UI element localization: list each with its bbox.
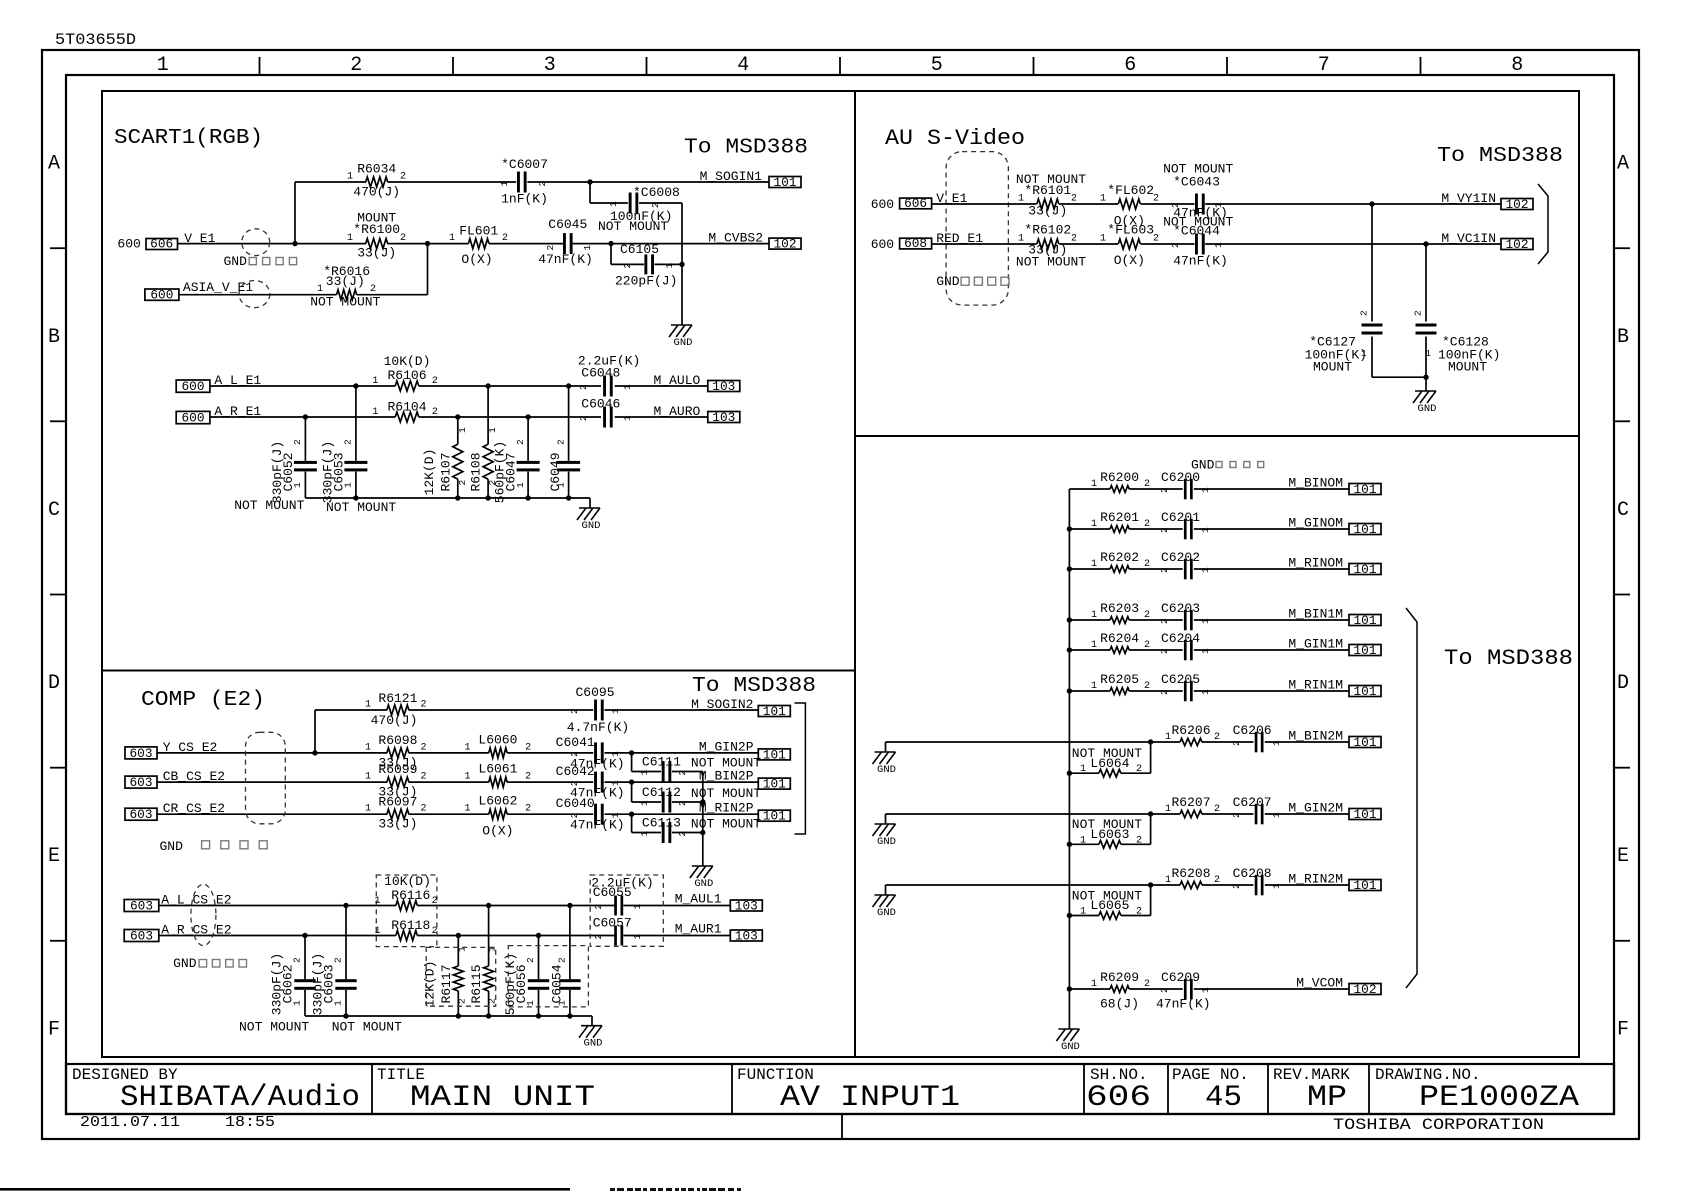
svg-text:101: 101: [774, 176, 797, 190]
svg-text:M_SOGIN2: M_SOGIN2: [691, 697, 753, 712]
svg-text:1: 1: [639, 831, 650, 837]
svg-text:101: 101: [1354, 483, 1377, 497]
svg-text:C6111: C6111: [642, 755, 681, 770]
svg-text:GND: GND: [160, 839, 184, 854]
svg-text:GND: GND: [936, 274, 960, 289]
svg-text:2: 2: [1214, 732, 1220, 743]
svg-text:SCART1(RGB): SCART1(RGB): [114, 127, 263, 150]
svg-text:1: 1: [632, 904, 643, 910]
svg-text:2: 2: [1071, 233, 1077, 244]
svg-text:1: 1: [639, 800, 650, 806]
svg-text:33(J): 33(J): [378, 817, 417, 832]
svg-text:47nF(K): 47nF(K): [538, 252, 593, 267]
svg-text:608: 608: [904, 237, 927, 251]
svg-text:C6095: C6095: [575, 685, 614, 700]
svg-text:4.7nF(K): 4.7nF(K): [567, 720, 629, 735]
svg-text:B: B: [1617, 326, 1629, 349]
svg-text:603: 603: [130, 747, 153, 761]
svg-text:600: 600: [182, 411, 205, 425]
svg-text:To MSD388: To MSD388: [1437, 145, 1563, 168]
svg-text:GND: GND: [877, 907, 896, 919]
svg-text:1: 1: [1080, 835, 1086, 846]
svg-text:8: 8: [1511, 54, 1523, 77]
svg-text:2: 2: [1144, 681, 1150, 692]
svg-text:2: 2: [578, 415, 589, 421]
svg-text:2: 2: [1359, 310, 1370, 316]
svg-text:1: 1: [457, 427, 468, 433]
svg-text:R6204: R6204: [1100, 631, 1139, 646]
svg-text:1: 1: [664, 263, 675, 269]
svg-text:1: 1: [1091, 479, 1097, 490]
svg-text:*FL602: *FL602: [1107, 183, 1154, 198]
svg-text:101: 101: [1354, 523, 1377, 537]
svg-text:O(X): O(X): [482, 824, 513, 839]
svg-text:2: 2: [1231, 812, 1242, 818]
svg-text:220pF(J): 220pF(J): [615, 274, 677, 289]
svg-text:1: 1: [1080, 907, 1086, 918]
svg-text:M_AULO: M_AULO: [654, 373, 701, 388]
svg-text:C6042: C6042: [556, 764, 595, 779]
svg-text:C: C: [1617, 499, 1629, 522]
svg-text:1: 1: [622, 415, 633, 421]
svg-text:2: 2: [432, 407, 438, 418]
svg-text:R6203: R6203: [1100, 601, 1139, 616]
svg-text:470(J): 470(J): [353, 185, 400, 200]
svg-text:606: 606: [150, 238, 173, 252]
svg-text:103: 103: [735, 900, 758, 914]
svg-text:M_GIN2M: M_GIN2M: [1288, 801, 1343, 816]
svg-text:2: 2: [370, 284, 376, 295]
svg-text:M_RIN2M: M_RIN2M: [1288, 872, 1343, 887]
svg-text:101: 101: [1354, 644, 1377, 658]
svg-text:M_VC1IN: M_VC1IN: [1441, 231, 1496, 246]
svg-text:L6065: L6065: [1090, 898, 1129, 913]
svg-text:NOT MOUNT: NOT MOUNT: [234, 498, 304, 513]
svg-text:GND: GND: [584, 1038, 603, 1050]
svg-text:2: 2: [457, 480, 468, 486]
svg-text:R6115: R6115: [469, 964, 484, 1003]
svg-text:C6046: C6046: [581, 397, 620, 412]
svg-text:1: 1: [347, 172, 353, 183]
svg-text:47nF(K): 47nF(K): [1156, 997, 1211, 1012]
svg-text:NOT MOUNT: NOT MOUNT: [332, 1020, 402, 1035]
svg-text:2: 2: [1170, 242, 1181, 248]
svg-text:C6052: C6052: [281, 452, 296, 491]
svg-text:C6204: C6204: [1161, 631, 1200, 646]
svg-text:603: 603: [130, 899, 153, 913]
svg-text:2: 2: [1144, 559, 1150, 570]
svg-text:2: 2: [1159, 648, 1170, 654]
svg-text:L6064: L6064: [1090, 756, 1129, 771]
svg-text:1: 1: [499, 181, 510, 187]
svg-text:D: D: [48, 672, 60, 695]
svg-text:2: 2: [593, 904, 604, 910]
svg-text:2: 2: [650, 202, 661, 208]
svg-text:GND: GND: [877, 836, 896, 848]
svg-text:33(J): 33(J): [326, 274, 365, 289]
svg-text:C6206: C6206: [1233, 723, 1272, 738]
svg-text:L6063: L6063: [1090, 827, 1129, 842]
svg-text:2: 2: [557, 957, 568, 963]
svg-text:4: 4: [737, 54, 749, 77]
svg-text:C6056: C6056: [514, 964, 529, 1003]
svg-text:GND: GND: [674, 337, 693, 349]
svg-text:M_CVBS2: M_CVBS2: [708, 230, 763, 245]
svg-text:R6200: R6200: [1100, 470, 1139, 485]
svg-text:A: A: [1617, 153, 1629, 176]
svg-text:101: 101: [763, 705, 786, 719]
svg-text:M_GIN1M: M_GIN1M: [1288, 637, 1343, 652]
svg-text:2: 2: [1144, 610, 1150, 621]
svg-text:1: 1: [1425, 348, 1431, 359]
svg-text:2: 2: [1214, 804, 1220, 815]
svg-text:103: 103: [735, 930, 758, 944]
svg-text:102: 102: [1354, 983, 1377, 997]
svg-text:To MSD388: To MSD388: [684, 137, 808, 160]
svg-text:M_AURO: M_AURO: [654, 404, 701, 419]
svg-text:C: C: [48, 499, 60, 522]
svg-text:101: 101: [1354, 685, 1377, 699]
svg-text:To MSD388: To MSD388: [1444, 646, 1573, 671]
svg-text:NOT MOUNT: NOT MOUNT: [326, 500, 396, 515]
svg-text:2: 2: [421, 742, 427, 753]
svg-text:2: 2: [525, 772, 531, 783]
svg-text:2: 2: [502, 233, 508, 244]
svg-text:NOT MOUNT: NOT MOUNT: [310, 295, 380, 310]
svg-text:47nF(K): 47nF(K): [570, 818, 625, 833]
svg-text:1: 1: [464, 804, 470, 815]
svg-text:101: 101: [1354, 614, 1377, 628]
svg-text:2: 2: [622, 263, 633, 269]
svg-text:1: 1: [622, 384, 633, 390]
svg-text:1: 1: [639, 770, 650, 776]
svg-text:2: 2: [1413, 310, 1424, 316]
svg-text:AV INPUT1: AV INPUT1: [780, 1081, 960, 1115]
svg-text:12K(D): 12K(D): [422, 449, 437, 496]
svg-text:1: 1: [1091, 979, 1097, 990]
svg-text:12K(D): 12K(D): [422, 961, 437, 1008]
svg-text:2: 2: [400, 172, 406, 183]
svg-text:C6047: C6047: [504, 452, 519, 491]
svg-text:1: 1: [1200, 527, 1211, 533]
svg-text:2: 2: [1071, 193, 1077, 204]
svg-text:NOT MOUNT: NOT MOUNT: [239, 1020, 309, 1035]
svg-text:M_BINOM: M_BINOM: [1288, 476, 1343, 491]
svg-text:1: 1: [1018, 233, 1024, 244]
svg-text:103: 103: [712, 411, 735, 425]
svg-text:1: 1: [157, 54, 169, 77]
svg-text:AU S-Video: AU S-Video: [885, 126, 1025, 151]
svg-text:C6062: C6062: [281, 964, 296, 1003]
svg-text:1: 1: [487, 427, 498, 433]
svg-text:2: 2: [569, 780, 580, 786]
svg-text:C6041: C6041: [556, 735, 595, 750]
svg-text:2011.07.11: 2011.07.11: [80, 1114, 180, 1131]
svg-text:18:55: 18:55: [225, 1114, 275, 1131]
svg-text:1: 1: [1100, 233, 1106, 244]
svg-text:1: 1: [608, 201, 619, 207]
svg-text:C6201: C6201: [1161, 510, 1200, 525]
svg-text:2: 2: [1159, 487, 1170, 493]
svg-text:2: 2: [1159, 689, 1170, 695]
svg-text:C6112: C6112: [642, 785, 681, 800]
svg-text:R6121: R6121: [378, 691, 417, 706]
svg-text:102: 102: [1506, 238, 1529, 252]
svg-text:101: 101: [1354, 879, 1377, 893]
svg-text:1: 1: [449, 233, 455, 244]
svg-text:*C6044: *C6044: [1173, 223, 1220, 238]
svg-text:1: 1: [1200, 689, 1211, 695]
svg-text:NOT MOUNT: NOT MOUNT: [691, 817, 761, 832]
svg-text:2: 2: [1231, 740, 1242, 746]
svg-text:NOT MOUNT: NOT MOUNT: [598, 219, 668, 234]
svg-text:1: 1: [1165, 732, 1171, 743]
svg-text:101: 101: [763, 748, 786, 762]
svg-text:600: 600: [871, 197, 894, 212]
svg-text:103: 103: [712, 380, 735, 394]
svg-text:45: 45: [1205, 1081, 1242, 1115]
svg-text:GND: GND: [1061, 1041, 1080, 1053]
svg-text:1: 1: [1271, 883, 1282, 889]
svg-text:1: 1: [632, 934, 643, 940]
svg-text:C6205: C6205: [1161, 672, 1200, 687]
svg-text:R6209: R6209: [1100, 970, 1139, 985]
svg-text:600: 600: [150, 288, 173, 302]
svg-text:C6202: C6202: [1161, 550, 1200, 565]
svg-text:*R6102: *R6102: [1024, 223, 1071, 238]
svg-text:2: 2: [456, 998, 467, 1004]
svg-text:M_AUR1: M_AUR1: [675, 922, 722, 937]
svg-text:2: 2: [1144, 979, 1150, 990]
svg-text:ASIA_V_E1: ASIA_V_E1: [183, 280, 253, 295]
svg-text:600: 600: [117, 237, 140, 252]
svg-text:1: 1: [347, 233, 353, 244]
svg-text:R6117: R6117: [439, 964, 454, 1003]
svg-text:2: 2: [569, 751, 580, 757]
svg-text:D: D: [1617, 672, 1629, 695]
svg-text:R6208: R6208: [1171, 866, 1210, 881]
svg-text:M_RIN1M: M_RIN1M: [1288, 678, 1343, 693]
svg-text:2: 2: [432, 376, 438, 387]
svg-text:1: 1: [317, 284, 323, 295]
svg-text:10K(D): 10K(D): [384, 354, 431, 369]
svg-text:PE1000ZA: PE1000ZA: [1419, 1081, 1579, 1115]
svg-text:R6207: R6207: [1171, 795, 1210, 810]
svg-text:3: 3: [544, 54, 556, 77]
svg-text:GND: GND: [1418, 403, 1437, 415]
svg-text:2: 2: [292, 957, 303, 963]
svg-text:A: A: [48, 153, 60, 176]
svg-text:2: 2: [677, 770, 688, 776]
svg-text:M_VY1IN: M_VY1IN: [1441, 191, 1496, 206]
svg-text:M_RIN2P: M_RIN2P: [699, 801, 754, 816]
svg-text:C6209: C6209: [1161, 970, 1200, 985]
svg-text:NOT MOUNT: NOT MOUNT: [691, 786, 761, 801]
svg-text:101: 101: [1354, 808, 1377, 822]
svg-text:M_RINOM: M_RINOM: [1288, 556, 1343, 571]
svg-text:1nF(K): 1nF(K): [501, 192, 548, 207]
svg-text:C6040: C6040: [556, 796, 595, 811]
svg-text:2: 2: [1153, 193, 1159, 204]
svg-text:101: 101: [763, 778, 786, 792]
svg-text:R6107: R6107: [438, 452, 453, 491]
svg-text:603: 603: [130, 929, 153, 943]
svg-text:2: 2: [545, 245, 556, 251]
svg-text:R6104: R6104: [387, 399, 426, 414]
svg-text:2: 2: [677, 800, 688, 806]
svg-text:33(J): 33(J): [357, 246, 396, 261]
svg-text:C6208: C6208: [1233, 866, 1272, 881]
svg-text:1: 1: [1100, 193, 1106, 204]
svg-text:1: 1: [1091, 610, 1097, 621]
svg-text:1: 1: [374, 926, 380, 937]
svg-text:2: 2: [1214, 875, 1220, 886]
svg-text:603: 603: [130, 808, 153, 822]
svg-text:C6203: C6203: [1161, 601, 1200, 616]
svg-text:2: 2: [432, 896, 438, 907]
svg-text:101: 101: [763, 810, 786, 824]
svg-text:1: 1: [1091, 519, 1097, 530]
svg-text:C6200: C6200: [1161, 470, 1200, 485]
svg-text:R6116: R6116: [391, 888, 430, 903]
svg-text:M_VCOM: M_VCOM: [1296, 976, 1343, 991]
svg-text:1: 1: [464, 742, 470, 753]
svg-text:F: F: [48, 1018, 60, 1041]
svg-text:2: 2: [1153, 233, 1159, 244]
svg-text:2: 2: [421, 804, 427, 815]
svg-text:1: 1: [1200, 618, 1211, 624]
svg-text:R6034: R6034: [357, 161, 396, 176]
svg-text:R6118: R6118: [391, 918, 430, 933]
svg-text:2: 2: [525, 957, 536, 963]
svg-text:F: F: [1617, 1018, 1629, 1041]
svg-text:MAIN UNIT: MAIN UNIT: [410, 1081, 595, 1115]
svg-text:GND: GND: [694, 878, 713, 890]
svg-text:1: 1: [610, 780, 621, 786]
svg-text:C6207: C6207: [1233, 795, 1272, 810]
svg-text:1: 1: [610, 812, 621, 818]
svg-text:1: 1: [1271, 812, 1282, 818]
svg-text:C6055: C6055: [593, 885, 632, 900]
svg-text:1: 1: [1213, 202, 1224, 208]
svg-text:*C6008: *C6008: [633, 185, 680, 200]
svg-text:470(J): 470(J): [371, 713, 418, 728]
svg-text:E: E: [48, 845, 60, 868]
svg-text:68(J): 68(J): [1100, 997, 1139, 1012]
svg-text:1: 1: [1213, 242, 1224, 248]
svg-text:2: 2: [525, 742, 531, 753]
svg-text:1: 1: [365, 700, 371, 711]
svg-text:R6201: R6201: [1100, 510, 1139, 525]
svg-text:1: 1: [1091, 681, 1097, 692]
svg-text:*R6100: *R6100: [353, 222, 400, 237]
svg-text:C6105: C6105: [620, 242, 659, 257]
svg-text:MOUNT: MOUNT: [1448, 360, 1487, 375]
svg-text:M_GIN2P: M_GIN2P: [699, 739, 754, 754]
svg-text:603: 603: [130, 776, 153, 790]
svg-text:C6057: C6057: [593, 915, 632, 930]
svg-text:1: 1: [365, 772, 371, 783]
svg-text:2: 2: [537, 181, 548, 187]
svg-text:1: 1: [1018, 193, 1024, 204]
svg-text:2: 2: [1159, 567, 1170, 573]
svg-text:R6099: R6099: [378, 762, 417, 777]
svg-text:1: 1: [1080, 764, 1086, 775]
svg-text:GND: GND: [877, 764, 896, 776]
svg-text:SHIBATA/Audio: SHIBATA/Audio: [120, 1081, 360, 1115]
svg-text:1: 1: [1200, 648, 1211, 654]
svg-text:L6061: L6061: [478, 762, 517, 777]
svg-text:2: 2: [350, 54, 362, 77]
svg-text:102: 102: [774, 238, 797, 252]
svg-text:COMP (E2): COMP (E2): [141, 689, 265, 712]
svg-text:1: 1: [1271, 740, 1282, 746]
svg-text:2: 2: [569, 812, 580, 818]
svg-text:GND: GND: [173, 956, 197, 971]
svg-text:2: 2: [593, 934, 604, 940]
svg-text:10K(D): 10K(D): [384, 874, 431, 889]
svg-text:7: 7: [1318, 54, 1330, 77]
svg-text:1: 1: [372, 407, 378, 418]
svg-text:FL601: FL601: [459, 224, 498, 239]
svg-text:R6097: R6097: [378, 794, 417, 809]
svg-text:2: 2: [1144, 519, 1150, 530]
svg-text:2: 2: [525, 804, 531, 815]
svg-text:101: 101: [1354, 736, 1377, 750]
svg-text:M_BIN2M: M_BIN2M: [1288, 729, 1343, 744]
svg-text:2: 2: [1159, 987, 1170, 993]
svg-text:5: 5: [931, 54, 943, 77]
svg-text:*R6101: *R6101: [1024, 183, 1071, 198]
svg-text:2: 2: [1231, 883, 1242, 889]
svg-text:R6202: R6202: [1100, 550, 1139, 565]
svg-text:C6049: C6049: [548, 452, 563, 491]
svg-text:1: 1: [365, 804, 371, 815]
svg-text:1: 1: [582, 245, 593, 251]
svg-text:L6060: L6060: [478, 732, 517, 747]
svg-text:2: 2: [421, 700, 427, 711]
svg-text:MP: MP: [1307, 1081, 1347, 1115]
svg-text:1: 1: [1200, 487, 1211, 493]
svg-text:GND: GND: [224, 254, 248, 269]
svg-text:R6098: R6098: [378, 733, 417, 748]
svg-text:2: 2: [432, 926, 438, 937]
svg-text:1: 1: [610, 751, 621, 757]
svg-text:1: 1: [1165, 804, 1171, 815]
svg-text:R6206: R6206: [1171, 723, 1210, 738]
svg-text:102: 102: [1506, 198, 1529, 212]
svg-text:2: 2: [400, 233, 406, 244]
svg-text:2: 2: [421, 772, 427, 783]
svg-text:1: 1: [372, 376, 378, 387]
svg-text:1: 1: [1165, 875, 1171, 886]
svg-text:600: 600: [871, 237, 894, 252]
svg-text:1: 1: [610, 708, 621, 714]
svg-text:R6108: R6108: [469, 452, 484, 491]
svg-text:C6113: C6113: [642, 816, 681, 831]
svg-text:M_BIN2P: M_BIN2P: [699, 769, 754, 784]
svg-text:*FL603: *FL603: [1107, 223, 1154, 238]
svg-text:O(X): O(X): [1114, 253, 1145, 268]
svg-text:O(X): O(X): [461, 252, 492, 267]
svg-text:M_GINOM: M_GINOM: [1288, 516, 1343, 531]
svg-text:2: 2: [333, 957, 344, 963]
svg-text:C6063: C6063: [322, 964, 337, 1003]
svg-text:2: 2: [555, 439, 566, 445]
svg-text:C6048: C6048: [581, 366, 620, 381]
svg-text:NOT MOUNT: NOT MOUNT: [691, 756, 761, 771]
svg-text:606: 606: [904, 197, 927, 211]
